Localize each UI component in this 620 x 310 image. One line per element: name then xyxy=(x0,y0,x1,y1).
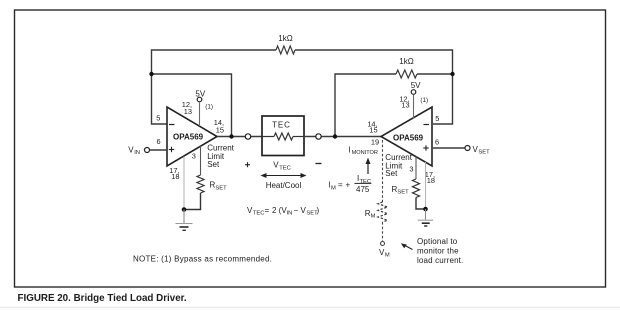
svg-text:TEC: TEC xyxy=(360,179,372,185)
resistor RM dashed xyxy=(365,202,388,222)
pin 14,15 label right xyxy=(367,119,377,134)
svg-text:19: 19 xyxy=(371,137,379,146)
terminal right output xyxy=(316,134,321,139)
label Current Limit Set right xyxy=(385,153,412,178)
resistor RSET left xyxy=(197,175,227,193)
supply 5V left xyxy=(195,89,205,101)
pin 6 label right xyxy=(435,138,439,147)
svg-text:I: I xyxy=(348,145,350,154)
ground right xyxy=(418,209,434,226)
svg-text:1kΩ: 1kΩ xyxy=(399,57,413,66)
svg-text:5V: 5V xyxy=(411,81,421,90)
svg-text:15: 15 xyxy=(369,125,377,134)
svg-text:(1): (1) xyxy=(205,103,213,110)
wire pins 17,18 left stub xyxy=(183,157,185,210)
svg-text:3: 3 xyxy=(409,165,413,174)
resistor R 1kOhm right xyxy=(396,57,417,78)
wire pin 3 left xyxy=(200,146,202,175)
supply 5V right xyxy=(411,81,421,94)
terminal VM xyxy=(379,242,390,259)
svg-text:IN: IN xyxy=(287,211,293,217)
svg-text:3: 3 xyxy=(192,152,196,161)
svg-text:M: M xyxy=(331,185,336,191)
wire pins 17,18 right stub xyxy=(425,162,427,209)
terminal VIN xyxy=(128,145,149,156)
op-amp U1 minus input sign xyxy=(169,124,175,126)
wire top feedback rail right segment xyxy=(295,50,453,124)
svg-text:18: 18 xyxy=(427,176,435,185)
node junction left feedback xyxy=(149,72,153,76)
pin 5 label right xyxy=(435,114,439,123)
wire VIN to pin6 xyxy=(150,149,167,151)
svg-text:+: + xyxy=(346,181,351,190)
svg-text:TEC: TEC xyxy=(279,166,291,172)
label Current Limit Set left xyxy=(207,143,234,169)
note (1) right xyxy=(420,97,428,104)
pin 3 label right xyxy=(409,165,413,174)
op-amp U1 OPA569 left xyxy=(167,107,217,166)
arrow IM up xyxy=(366,158,371,175)
pin 19 label right xyxy=(371,137,379,146)
formula IM = + ITEC/475 xyxy=(329,174,372,194)
svg-text:=: = xyxy=(265,206,270,215)
svg-text:monitor the: monitor the xyxy=(417,247,459,256)
label plus VTEC xyxy=(245,162,250,167)
svg-text:OPA569: OPA569 xyxy=(393,133,424,142)
node right output junction xyxy=(333,134,337,138)
wire left mid feedback xyxy=(152,74,232,137)
wire 5V stub left pins 12,13 xyxy=(199,102,201,126)
svg-text:SET: SET xyxy=(215,185,227,191)
op-amp U2 OPA569 right xyxy=(381,107,432,166)
node junction right feedback xyxy=(450,72,454,76)
svg-text:TEC: TEC xyxy=(272,120,291,129)
wire TEC to right op-amp output xyxy=(304,136,381,138)
wire right mid feedback left segment xyxy=(335,74,396,137)
resistor TEC element xyxy=(262,133,304,140)
wire dashed RM to VM xyxy=(382,222,384,241)
svg-text:Optional to: Optional to xyxy=(417,237,458,246)
op-amp U1 plus input sign xyxy=(169,147,174,152)
svg-text:13: 13 xyxy=(401,100,409,109)
svg-text:5: 5 xyxy=(435,114,439,123)
svg-text:5: 5 xyxy=(156,114,160,123)
op-amp U2 minus input sign xyxy=(424,124,430,126)
node left ground junction xyxy=(182,207,187,212)
ground left xyxy=(176,210,193,231)
svg-text:): ) xyxy=(317,206,320,215)
op-amp U2 plus input sign xyxy=(423,145,428,150)
svg-text:M: M xyxy=(385,253,390,259)
wire RSET left to ground node xyxy=(184,193,201,210)
svg-text:FIGURE 20. Bridge Tied Load Dr: FIGURE 20. Bridge Tied Load Driver. xyxy=(18,293,187,304)
wire pin 3 right xyxy=(415,157,417,180)
svg-text:1kΩ: 1kΩ xyxy=(278,34,292,43)
svg-text:M: M xyxy=(371,214,376,220)
svg-text:load current.: load current. xyxy=(417,256,463,265)
wire top feedback rail left segment xyxy=(152,50,277,124)
note (1) left xyxy=(205,103,213,110)
pin 17,18 label right xyxy=(425,170,435,185)
svg-text:Set: Set xyxy=(207,160,220,169)
svg-text:6: 6 xyxy=(435,138,439,147)
label minus VTEC xyxy=(316,163,322,165)
svg-text:(1): (1) xyxy=(420,97,428,104)
label IMONITOR xyxy=(348,145,378,156)
formula VTEC = 2 (VIN - VSET) xyxy=(247,206,320,217)
wire dashed pin 19 monitor xyxy=(382,140,384,202)
svg-text:SET: SET xyxy=(478,149,490,155)
wire RSET right to ground node xyxy=(416,198,426,210)
svg-text:475: 475 xyxy=(356,185,370,194)
node right ground junction xyxy=(423,207,428,212)
svg-text:TEC: TEC xyxy=(253,211,265,217)
svg-text:2 (V: 2 (V xyxy=(272,206,287,215)
svg-text:=: = xyxy=(338,181,343,190)
wire left output xyxy=(217,136,262,138)
pin 14,15 label left xyxy=(214,118,224,134)
resistor R 1kOhm left xyxy=(276,34,295,54)
pin 5 label left xyxy=(156,114,160,123)
figure caption xyxy=(18,293,187,304)
svg-text:15: 15 xyxy=(216,125,224,134)
pin 17,18 label left xyxy=(169,166,179,181)
svg-text:IN: IN xyxy=(134,150,140,156)
svg-text:OPA569: OPA569 xyxy=(173,133,204,142)
svg-text:Set: Set xyxy=(385,169,398,178)
pin 12,13 label right xyxy=(399,94,409,109)
pin 6 label left xyxy=(156,137,160,146)
svg-text:6: 6 xyxy=(156,137,160,146)
svg-text:SET: SET xyxy=(397,190,409,196)
pin 12,13 label left xyxy=(182,100,192,116)
svg-text:NOTE: (1) Bypass as recommende: NOTE: (1) Bypass as recommended. xyxy=(133,254,272,263)
TEC load box xyxy=(262,116,304,156)
svg-text:13: 13 xyxy=(184,107,192,116)
note bypass text xyxy=(133,254,272,263)
wire 5V stub right pins 12,13 xyxy=(413,95,415,119)
wire right mid feedback right segment xyxy=(417,73,453,75)
label Heat/Cool xyxy=(266,181,302,190)
bottom page rule xyxy=(0,307,620,309)
terminal VSET xyxy=(433,145,490,156)
node left output junction xyxy=(229,134,233,138)
pin 3 label left xyxy=(192,152,196,161)
arrow heat/cool double xyxy=(261,173,307,178)
svg-text:18: 18 xyxy=(171,172,179,181)
label optional note with arrow xyxy=(401,237,464,265)
resistor RSET right xyxy=(392,179,420,198)
terminal left output xyxy=(245,134,250,139)
svg-text:Heat/Cool: Heat/Cool xyxy=(266,181,302,190)
svg-text:−: − xyxy=(294,206,299,215)
label VTEC under box xyxy=(273,161,291,172)
svg-text:MONITOR: MONITOR xyxy=(352,150,378,156)
